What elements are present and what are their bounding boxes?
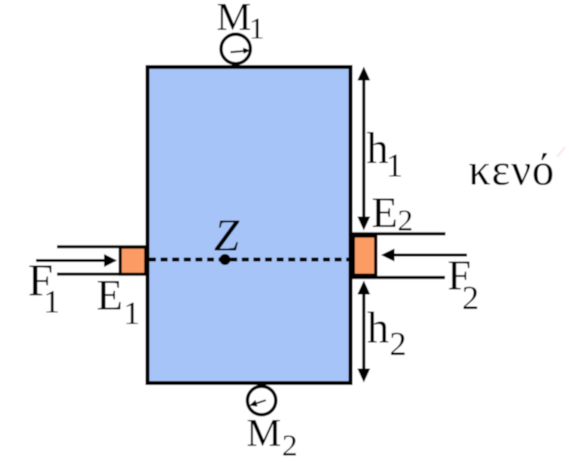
piston E1 <box>120 247 146 274</box>
svg-text:E: E <box>372 190 398 237</box>
label h2 <box>367 303 407 363</box>
gauge M1 <box>221 34 250 63</box>
label h1 <box>367 124 404 184</box>
cylinder bottom wall right <box>352 276 445 279</box>
svg-text:M: M <box>247 411 282 454</box>
svg-text:Z: Z <box>214 210 240 260</box>
svg-text:1: 1 <box>249 11 265 46</box>
svg-text:1: 1 <box>44 285 61 321</box>
svg-text:E: E <box>97 273 123 320</box>
vessel tank (blue rectangle) <box>148 67 351 383</box>
force arrow F1 <box>36 254 117 267</box>
dimension arrow h2 <box>357 281 370 383</box>
dashed centerline <box>149 258 351 262</box>
label E2 <box>372 190 414 238</box>
label F2 <box>448 254 480 318</box>
label M2 <box>247 411 298 462</box>
svg-text:M: M <box>217 0 252 39</box>
svg-text:2: 2 <box>462 280 479 317</box>
label M1 <box>217 0 265 46</box>
dimension arrow h1 <box>357 67 370 231</box>
label F1 <box>28 256 60 321</box>
force arrow F2 <box>381 249 467 262</box>
svg-text:2: 2 <box>282 427 298 461</box>
svg-text:2: 2 <box>390 326 407 363</box>
svg-text:1: 1 <box>124 296 141 332</box>
svg-text:1: 1 <box>386 148 403 185</box>
svg-text:h: h <box>367 303 389 352</box>
svg-text:κενό: κενό <box>469 146 556 195</box>
cylinder top wall left <box>57 245 149 248</box>
svg-text:2: 2 <box>398 203 414 238</box>
piston E2 <box>353 236 375 275</box>
cylinder bottom wall left <box>57 273 149 276</box>
cylinder top wall right <box>352 232 445 235</box>
gauge M2 <box>247 386 275 414</box>
point Z dot <box>220 254 231 265</box>
faint pink artifact <box>557 147 565 157</box>
label E1 <box>97 273 141 333</box>
